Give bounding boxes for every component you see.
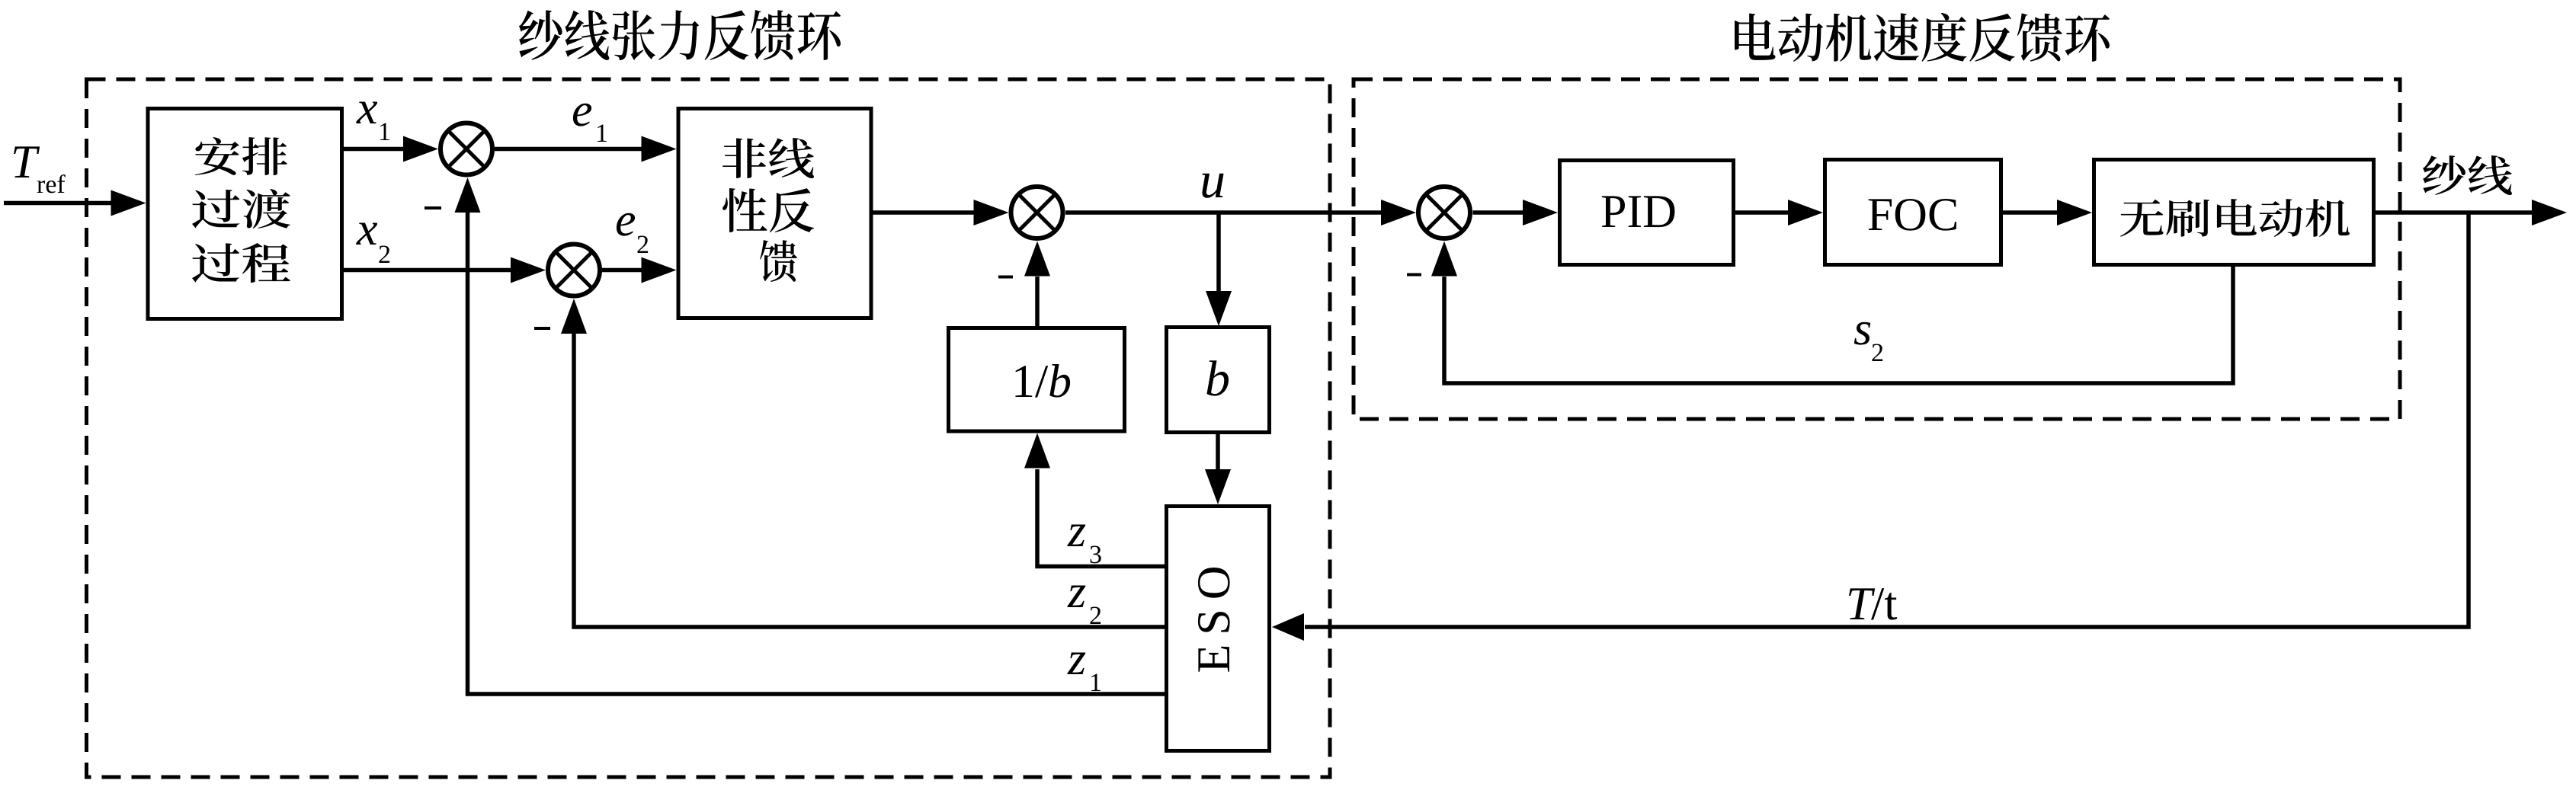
- wire: 1/b box up to summer 3: [1035, 277, 1040, 326]
- wire: z2 from ESO to summer 2: [574, 334, 1165, 627]
- svg-text:z: z: [1067, 566, 1086, 618]
- arrowhead e1 into nonlinear box: [642, 136, 677, 162]
- svg-text:z: z: [1067, 633, 1086, 685]
- arrowhead u into summer 4: [1381, 200, 1416, 225]
- wire: summer 4 to PID: [1473, 210, 1523, 215]
- svg-text:u: u: [1200, 151, 1226, 209]
- summing junction 3 (u node): [1011, 187, 1063, 238]
- arrowhead s2 into summer 4 bottom: [1431, 241, 1457, 277]
- wire: u branch down to b box: [1216, 213, 1221, 291]
- arrowhead T/t into ESO right side: [1272, 613, 1304, 641]
- svg-text:x: x: [356, 203, 378, 255]
- minus sign at summer 1: [425, 206, 441, 209]
- svg-text:2: 2: [378, 241, 391, 269]
- dashed boundary: motor speed feedback loop: [1354, 79, 2400, 419]
- arrowhead into motor: [2057, 200, 2092, 225]
- svg-text:b: b: [1205, 351, 1230, 407]
- svg-text:e: e: [572, 85, 593, 136]
- wire: nonlinear box to summer 3: [873, 210, 975, 215]
- arrange-transition box text row1 安排: [195, 137, 287, 175]
- arrowhead into FOC: [1788, 200, 1823, 225]
- wire: z1 from ESO to summer 1: [468, 213, 1165, 694]
- wire: PID to FOC: [1735, 210, 1788, 215]
- svg-text:2: 2: [1089, 602, 1102, 630]
- svg-text:1/: 1/: [1011, 356, 1049, 408]
- block: ESO extended state observer: [1167, 507, 1270, 751]
- svg-text:2: 2: [636, 231, 649, 259]
- svg-text:/t: /t: [1871, 578, 1898, 630]
- arrowhead x1 into summer 1: [403, 136, 438, 162]
- svg-text:z: z: [1067, 505, 1086, 557]
- arrange-transition box text row3 过程: [192, 243, 290, 283]
- wire: x2 from arrange box to summer 2: [344, 268, 511, 273]
- svg-text:ESO: ESO: [1188, 556, 1240, 673]
- title: yarn tension feedback loop: [519, 10, 841, 60]
- wire: s2 speed feedback from motor to summer 4: [1444, 267, 2233, 383]
- wire: e2 from summer 2 to nonlinear box: [602, 268, 642, 273]
- arrowhead into b box: [1206, 291, 1232, 326]
- wire: u line summer 3 to summer 4: [1065, 210, 1381, 215]
- minus sign at summer 4: [1407, 273, 1421, 277]
- title: motor speed feedback loop: [1735, 13, 2110, 62]
- block: b gain: [1167, 328, 1270, 433]
- brushless motor box text 无刷电动机: [2120, 199, 2350, 237]
- wire: z3 from ESO to 1/b box: [1037, 469, 1165, 567]
- arrange-transition box text row2 过渡: [192, 189, 290, 229]
- wire: b box down to ESO: [1216, 434, 1220, 470]
- block: 1/b gain: [949, 328, 1125, 432]
- dashed boundary: yarn tension feedback loop: [87, 79, 1331, 777]
- arrowhead into summer 3 bottom: [1024, 241, 1050, 277]
- block: nonlinear feedback 非线性反馈: [678, 109, 871, 318]
- arrowhead into arrange box: [111, 190, 146, 216]
- arrowhead e2 into nonlinear box: [642, 257, 677, 283]
- block: FOC: [1825, 160, 2001, 265]
- svg-text:PID: PID: [1600, 186, 1677, 238]
- nonlinear-feedback box text row3 馈: [760, 240, 797, 282]
- svg-text:FOC: FOC: [1867, 189, 1959, 241]
- arrowhead z2 into summer 2 bottom: [561, 299, 587, 334]
- block: brushless motor 无刷电动机: [2094, 160, 2374, 265]
- wire: motor to yarn output: [2376, 210, 2532, 215]
- output label 纱线: [2423, 155, 2512, 195]
- svg-text:3: 3: [1089, 541, 1102, 569]
- summing junction 2 (x2 - z2): [548, 245, 600, 296]
- svg-text:b: b: [1048, 356, 1072, 408]
- minus sign at summer 3: [998, 276, 1013, 279]
- arrowhead yarn output: [2532, 200, 2567, 225]
- arrowhead into ESO top: [1205, 469, 1231, 504]
- svg-text:x: x: [356, 82, 378, 134]
- arrowhead z1 into summer 1 bottom: [455, 178, 481, 213]
- svg-text:e: e: [615, 194, 636, 246]
- summing junction 4 (speed loop): [1418, 187, 1470, 238]
- arrowhead into summer 3: [974, 200, 1009, 225]
- arrowhead x2 into summer 2: [511, 257, 546, 283]
- svg-text:1: 1: [1089, 669, 1102, 697]
- wire: T_ref input: [4, 201, 111, 206]
- nonlinear-feedback box text row1 非线: [722, 138, 814, 178]
- svg-text:1: 1: [595, 120, 608, 148]
- arrowhead into PID: [1523, 200, 1558, 225]
- summing junction 1 (x1 - z1): [441, 123, 492, 175]
- wire: e1 from summer 1 to nonlinear box: [495, 147, 642, 152]
- wire: FOC to brushless motor: [2003, 210, 2057, 215]
- wire: x1 from arrange box to summer 1: [344, 147, 403, 152]
- svg-text:2: 2: [1871, 339, 1884, 367]
- wire: T/t tension feedback from output tap to ESO: [1305, 213, 2469, 627]
- minus sign at summer 2: [534, 327, 550, 330]
- arrowhead z3 into 1/b box: [1024, 433, 1050, 469]
- block: arrange transition process 安排过渡过程: [148, 109, 342, 319]
- svg-text:1: 1: [378, 118, 391, 146]
- nonlinear-feedback box text row2 性反: [722, 188, 814, 232]
- block: PID controller: [1560, 161, 1734, 265]
- svg-text:ref: ref: [37, 171, 66, 199]
- svg-text:s: s: [1854, 303, 1872, 355]
